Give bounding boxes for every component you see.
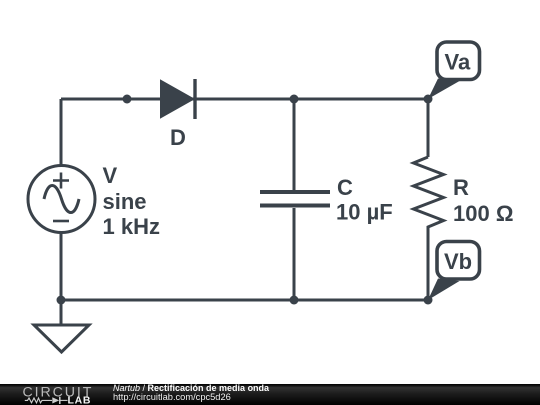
footer url — [113, 392, 231, 402]
svg-text:10 µF: 10 µF — [336, 200, 393, 225]
CircuitLab logo — [23, 384, 94, 405]
wire resistor top lead — [427, 99, 430, 157]
wire capacitor bottom lead — [293, 208, 296, 300]
node Vb flag — [428, 242, 480, 301]
resistor R — [414, 157, 444, 234]
wire top rail — [61, 98, 428, 101]
svg-text:LAB: LAB — [68, 395, 92, 405]
capacitor C — [260, 192, 330, 206]
svg-text:Va: Va — [445, 50, 471, 75]
svg-text:1 kHz: 1 kHz — [103, 214, 160, 239]
svg-text:Vb: Vb — [444, 249, 472, 274]
label D — [170, 125, 186, 150]
svg-text:http://circuitlab.com/cpc5d26: http://circuitlab.com/cpc5d26 — [113, 392, 231, 402]
node Va flag — [428, 42, 480, 99]
node dot ground — [57, 296, 66, 305]
wire capacitor top lead — [293, 99, 296, 190]
footer bar — [0, 384, 540, 405]
wire resistor bottom lead — [427, 234, 430, 300]
label R 100ohm — [453, 175, 513, 226]
svg-text:R: R — [453, 175, 469, 200]
node dot junction 1 — [123, 95, 132, 104]
label C 10uF — [336, 175, 393, 225]
node dot Va — [424, 95, 433, 104]
wire bottom rail — [61, 299, 428, 302]
svg-text:100 Ω: 100 Ω — [453, 201, 513, 226]
node dot capacitor bottom — [290, 296, 299, 305]
svg-text:sine: sine — [103, 189, 147, 214]
svg-text:V: V — [103, 163, 118, 188]
footer title — [113, 383, 270, 393]
diode D — [161, 79, 195, 119]
voltage source V — [28, 166, 95, 233]
svg-text:C: C — [337, 175, 353, 200]
node dot capacitor top — [290, 95, 299, 104]
svg-text:D: D — [170, 125, 186, 150]
wire left vertical upper — [60, 99, 63, 166]
ground — [34, 300, 89, 352]
wire left vertical lower — [60, 232, 63, 300]
node dot Vb — [424, 296, 433, 305]
label V sine 1kHz — [103, 163, 160, 239]
